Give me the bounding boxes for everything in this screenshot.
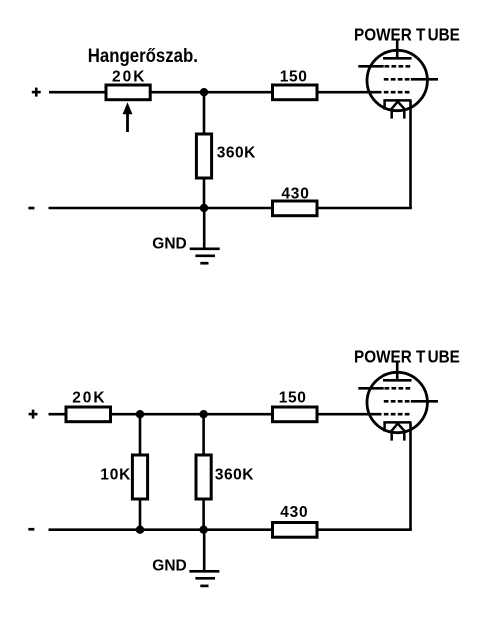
node + (top input terminal) xyxy=(32,88,41,97)
wire: junction D down to 360K xyxy=(202,414,205,455)
cathode left leg (top tube) xyxy=(383,100,386,109)
node + (bottom input terminal) xyxy=(29,410,38,419)
junction node B (top - rail / GND) xyxy=(200,204,208,212)
resistor 150 (bottom circuit) body xyxy=(273,407,318,422)
resistor 20K (bottom circuit) body xyxy=(66,407,111,422)
wire: junction down to 360K top xyxy=(203,92,206,134)
wire: 430 to cathode lead xyxy=(317,207,412,210)
cathode bar (top tube) xyxy=(383,99,411,102)
power tube V1 (top) envelope circle xyxy=(367,50,427,110)
plate bar (bottom tube) xyxy=(383,379,412,382)
cathode left leg (bottom tube) xyxy=(383,422,386,431)
svg-text:360K: 360K xyxy=(215,467,254,484)
junction node A (top + rail / 360K top) xyxy=(200,88,208,96)
resistor 430 (top circuit) body xyxy=(273,201,318,216)
ground symbol (top circuit) xyxy=(190,249,220,263)
power tube V2 (bottom) envelope circle xyxy=(367,372,427,432)
grid 3 dashed (top tube) xyxy=(384,91,410,94)
potentiometer wiper arrow xyxy=(126,114,129,133)
wire: 20K to 150 with junctions xyxy=(111,413,273,416)
svg-text:150: 150 xyxy=(280,68,308,85)
svg-text:GND: GND xyxy=(152,557,186,574)
svg-text:430: 430 xyxy=(280,504,308,521)
svg-text:20K: 20K xyxy=(112,69,146,86)
heater / filament (top tube) xyxy=(392,102,405,119)
wire: - terminal to 430 with junctions xyxy=(49,528,273,531)
plate lead (top tube) xyxy=(396,40,399,58)
wire: 150 to tube grid (grid-3 lead, bottom) xyxy=(317,413,382,416)
resistor 150 (top circuit) body xyxy=(273,85,318,100)
plate lead (bottom tube) xyxy=(396,362,399,380)
svg-text:POWER TUBE: POWER TUBE xyxy=(354,347,460,366)
cathode lead down to - rail (top tube) xyxy=(409,100,412,208)
svg-text:360K: 360K xyxy=(217,145,256,162)
resistor 430 (bottom circuit) body xyxy=(273,523,318,538)
node - (top input terminal) xyxy=(28,207,34,210)
junction node E (- rail / 10K bottom) xyxy=(136,526,144,534)
wire: junction C down to 10K xyxy=(139,414,142,455)
resistor 360K (bottom circuit) body xyxy=(196,455,211,499)
ground symbol (bottom circuit) xyxy=(189,571,219,586)
wire: 150 to tube grid (grid-3 lead) xyxy=(317,91,382,94)
wire: GND lead down from junction F xyxy=(203,530,206,571)
svg-text:Hangerőszab.: Hangerőszab. xyxy=(88,45,198,66)
svg-text:430: 430 xyxy=(281,186,309,203)
grid 1 dashed + left stub (top tube) xyxy=(358,65,383,68)
wire: 10K bottom to - rail xyxy=(139,499,142,530)
wire: GND lead down from junction B xyxy=(203,208,206,248)
wire: + terminal to potentiometer 20K xyxy=(49,91,106,94)
svg-text:GND: GND xyxy=(152,235,186,252)
svg-text:150: 150 xyxy=(279,389,307,406)
wire: + terminal to resistor 20K xyxy=(49,413,67,416)
grid 2 dashed + right lead (bottom tube) xyxy=(384,400,411,403)
potentiometer 20K body xyxy=(106,85,150,100)
wire: - terminal to 430 with junction xyxy=(49,207,273,210)
svg-text:10K: 10K xyxy=(100,467,131,484)
wire: 360K bottom to - rail xyxy=(203,178,206,208)
node - (bottom input terminal) xyxy=(28,528,34,531)
wire: 430 to cathode lead (bottom) xyxy=(317,528,412,531)
plate bar (top tube) xyxy=(383,57,412,60)
heater / filament (bottom tube) xyxy=(392,424,405,441)
resistor 10K body xyxy=(132,455,147,499)
grid 3 dashed (bottom tube) xyxy=(384,413,410,416)
cathode bar (bottom tube) xyxy=(383,421,411,424)
cathode lead down to - rail (bottom tube) xyxy=(409,422,412,529)
resistor 360K (top circuit) body xyxy=(196,134,211,178)
grid 2 dashed + right lead (top tube) xyxy=(384,78,411,81)
svg-text:POWER TUBE: POWER TUBE xyxy=(354,25,460,44)
junction node D (+ rail / 360K top) xyxy=(199,410,207,418)
junction node F (- rail / 360K bottom / GND) xyxy=(199,526,207,534)
wire: 360K bottom to - rail xyxy=(202,499,205,530)
grid 1 dashed + left stub (bottom tube) xyxy=(358,387,383,390)
junction node C (+ rail / 10K top) xyxy=(136,410,144,418)
wire: 20K to 150 with junction xyxy=(151,91,273,94)
svg-text:20K: 20K xyxy=(72,389,106,406)
